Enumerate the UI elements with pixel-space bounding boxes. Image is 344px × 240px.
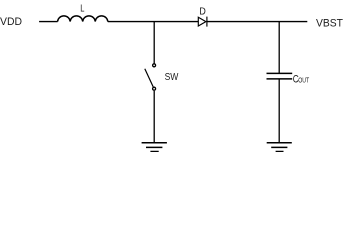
- inductor L: [58, 16, 108, 22]
- svg-text:SW: SW: [165, 72, 179, 83]
- svg-text:VDD: VDD: [0, 16, 22, 28]
- capacitor COUT: [267, 73, 293, 79]
- svg-text:L: L: [80, 4, 85, 15]
- wire (junction to capacitor): [278, 22, 280, 73]
- svg-text:D: D: [199, 6, 206, 17]
- diode D: [198, 17, 207, 27]
- wire (switch to ground): [153, 91, 155, 143]
- wire: [207, 21, 307, 23]
- wire: [108, 21, 199, 23]
- svg-text:OUT: OUT: [298, 75, 309, 84]
- wire: [39, 21, 58, 23]
- ground (right): [267, 143, 292, 152]
- wire (capacitor to ground): [278, 79, 280, 142]
- ground (left): [142, 143, 167, 152]
- switch SW: [145, 64, 156, 90]
- wire (junction to switch): [153, 22, 155, 64]
- svg-text:VBST: VBST: [316, 17, 343, 29]
